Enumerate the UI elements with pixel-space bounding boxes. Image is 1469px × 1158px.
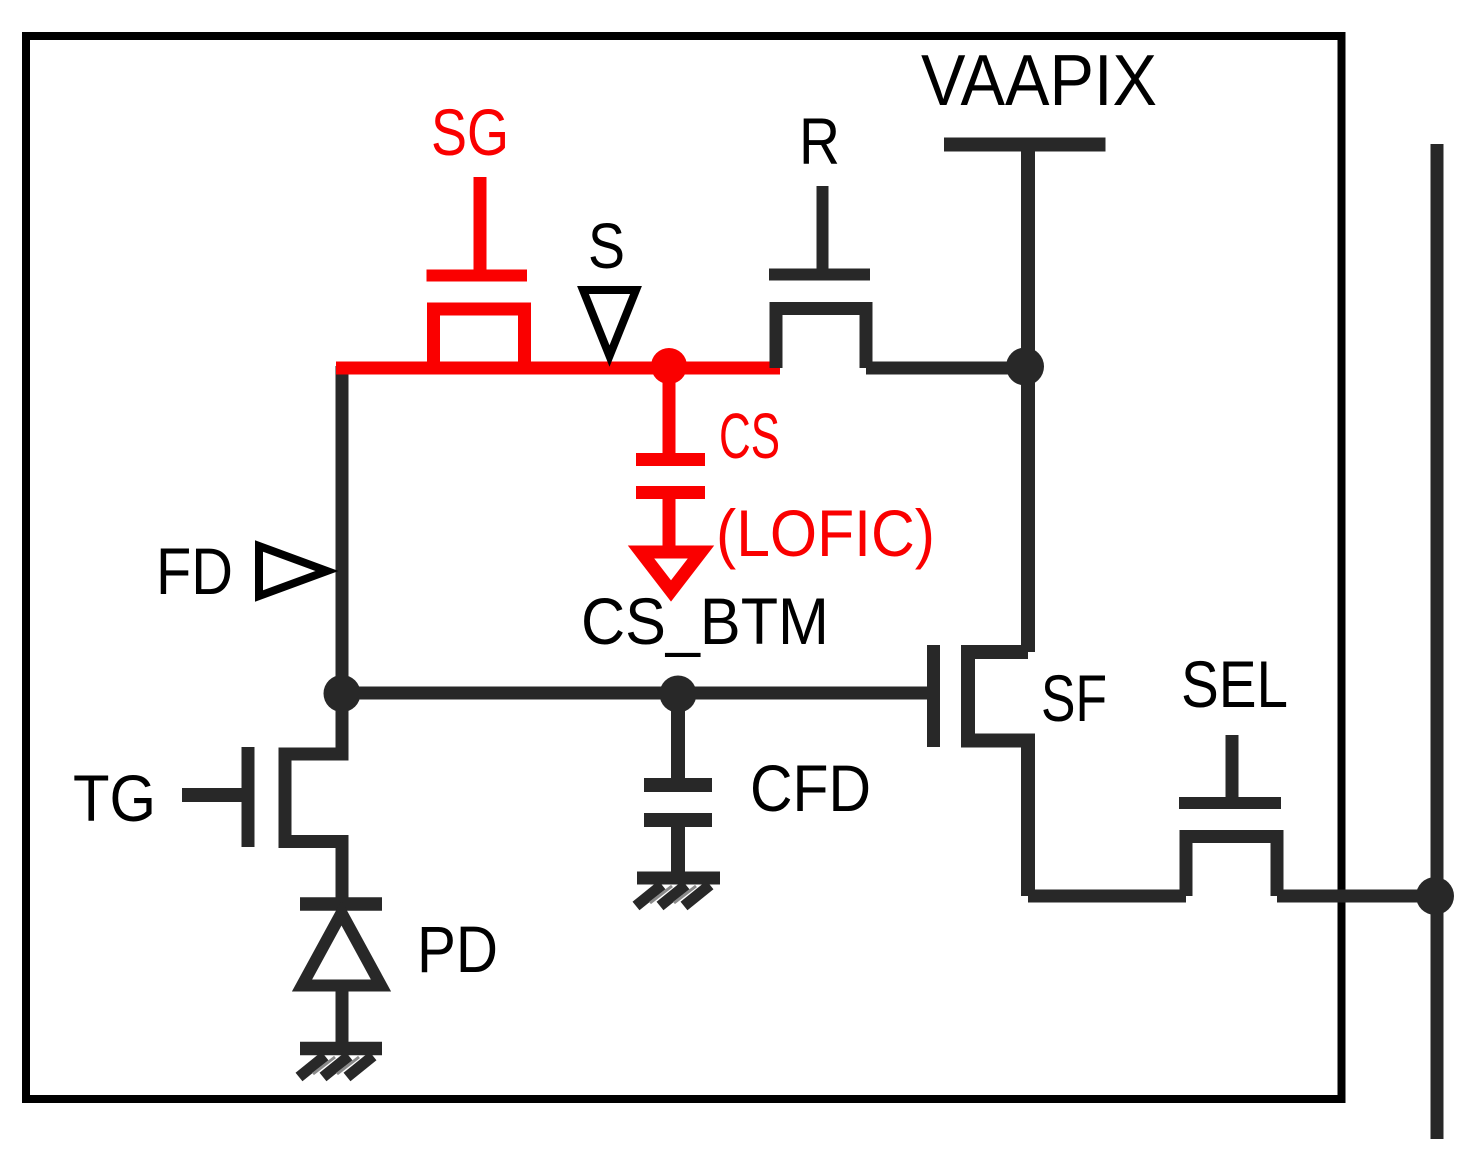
node: column bus junction dot (1416, 877, 1454, 915)
svg-text:SG: SG (431, 95, 509, 169)
node: VAAPIX / reset drain junction dot (1006, 348, 1044, 386)
transistor R gate bar (769, 269, 870, 281)
transistor SG gate stem (474, 177, 487, 280)
wire SEL source to column bus (1277, 890, 1435, 903)
node CS_BTM junction dot (660, 676, 697, 713)
node S input triangle (583, 290, 636, 356)
svg-text:PD: PD (417, 912, 498, 986)
wire FD vertical (336, 366, 349, 693)
svg-text:SF: SF (1041, 661, 1107, 735)
wire CS_BTM row (FD to SF gate) (342, 687, 927, 700)
capacitor CS lower stem (663, 493, 676, 549)
node S junction dot (red) (651, 348, 687, 384)
FD pointer triangle (259, 546, 327, 596)
transistor SEL gate stem (1226, 735, 1239, 808)
node FD junction dot (324, 675, 361, 712)
transistor SF channel (968, 652, 1028, 896)
transistor SEL channel (1186, 837, 1277, 897)
transistor SG gate bar (427, 270, 528, 282)
ground (PD) (299, 1049, 382, 1078)
svg-text:CFD: CFD (750, 751, 871, 825)
wire VAAPIX stem down to SF drain (1021, 146, 1035, 652)
svg-text:CS: CS (719, 400, 780, 472)
svg-text:(LOFIC): (LOFIC) (716, 496, 935, 570)
capacitor CFD top plate (644, 778, 712, 792)
wire red: SG row from FD branch to reset transistor (336, 362, 780, 375)
transistor TG channel (285, 693, 342, 900)
svg-text:CS_BTM: CS_BTM (581, 584, 829, 658)
transistor R (reset) channel (776, 309, 866, 369)
capacitor CS top plate (636, 453, 705, 466)
capacitor CFD stem (671, 694, 685, 782)
photodiode PD cathode bar (300, 897, 382, 911)
VAAPIX supply bar (944, 138, 1106, 152)
svg-text:TG: TG (73, 761, 156, 835)
svg-text:S: S (588, 210, 625, 282)
column bus vertical line (1431, 144, 1444, 1139)
svg-text:VAAPIX: VAAPIX (921, 41, 1157, 121)
transistor TG gate lead (182, 788, 242, 802)
capacitor CS stem (red) (663, 366, 676, 457)
wire PD anode to ground (336, 990, 349, 1049)
CS arrow head (hollow, red) (641, 552, 701, 591)
photodiode PD triangle (302, 913, 381, 986)
svg-text:SEL: SEL (1181, 647, 1288, 721)
ground (CFD) (636, 878, 720, 906)
transistor SF gate bar (927, 645, 940, 747)
wire SF source to SEL (1028, 890, 1186, 903)
wire reset source to VAAPIX node (866, 362, 1025, 375)
transistor SEL gate bar (1179, 797, 1281, 809)
capacitor CS bottom plate (636, 486, 705, 499)
transistor R gate stem (817, 186, 829, 279)
capacitor CFD bottom plate (644, 813, 712, 827)
transistor TG gate bar (242, 747, 255, 847)
svg-text:FD: FD (156, 534, 233, 608)
svg-text:R: R (799, 104, 840, 178)
capacitor CFD lower stem (671, 821, 685, 874)
transistor SG (storage gate, red) channel (434, 309, 525, 368)
